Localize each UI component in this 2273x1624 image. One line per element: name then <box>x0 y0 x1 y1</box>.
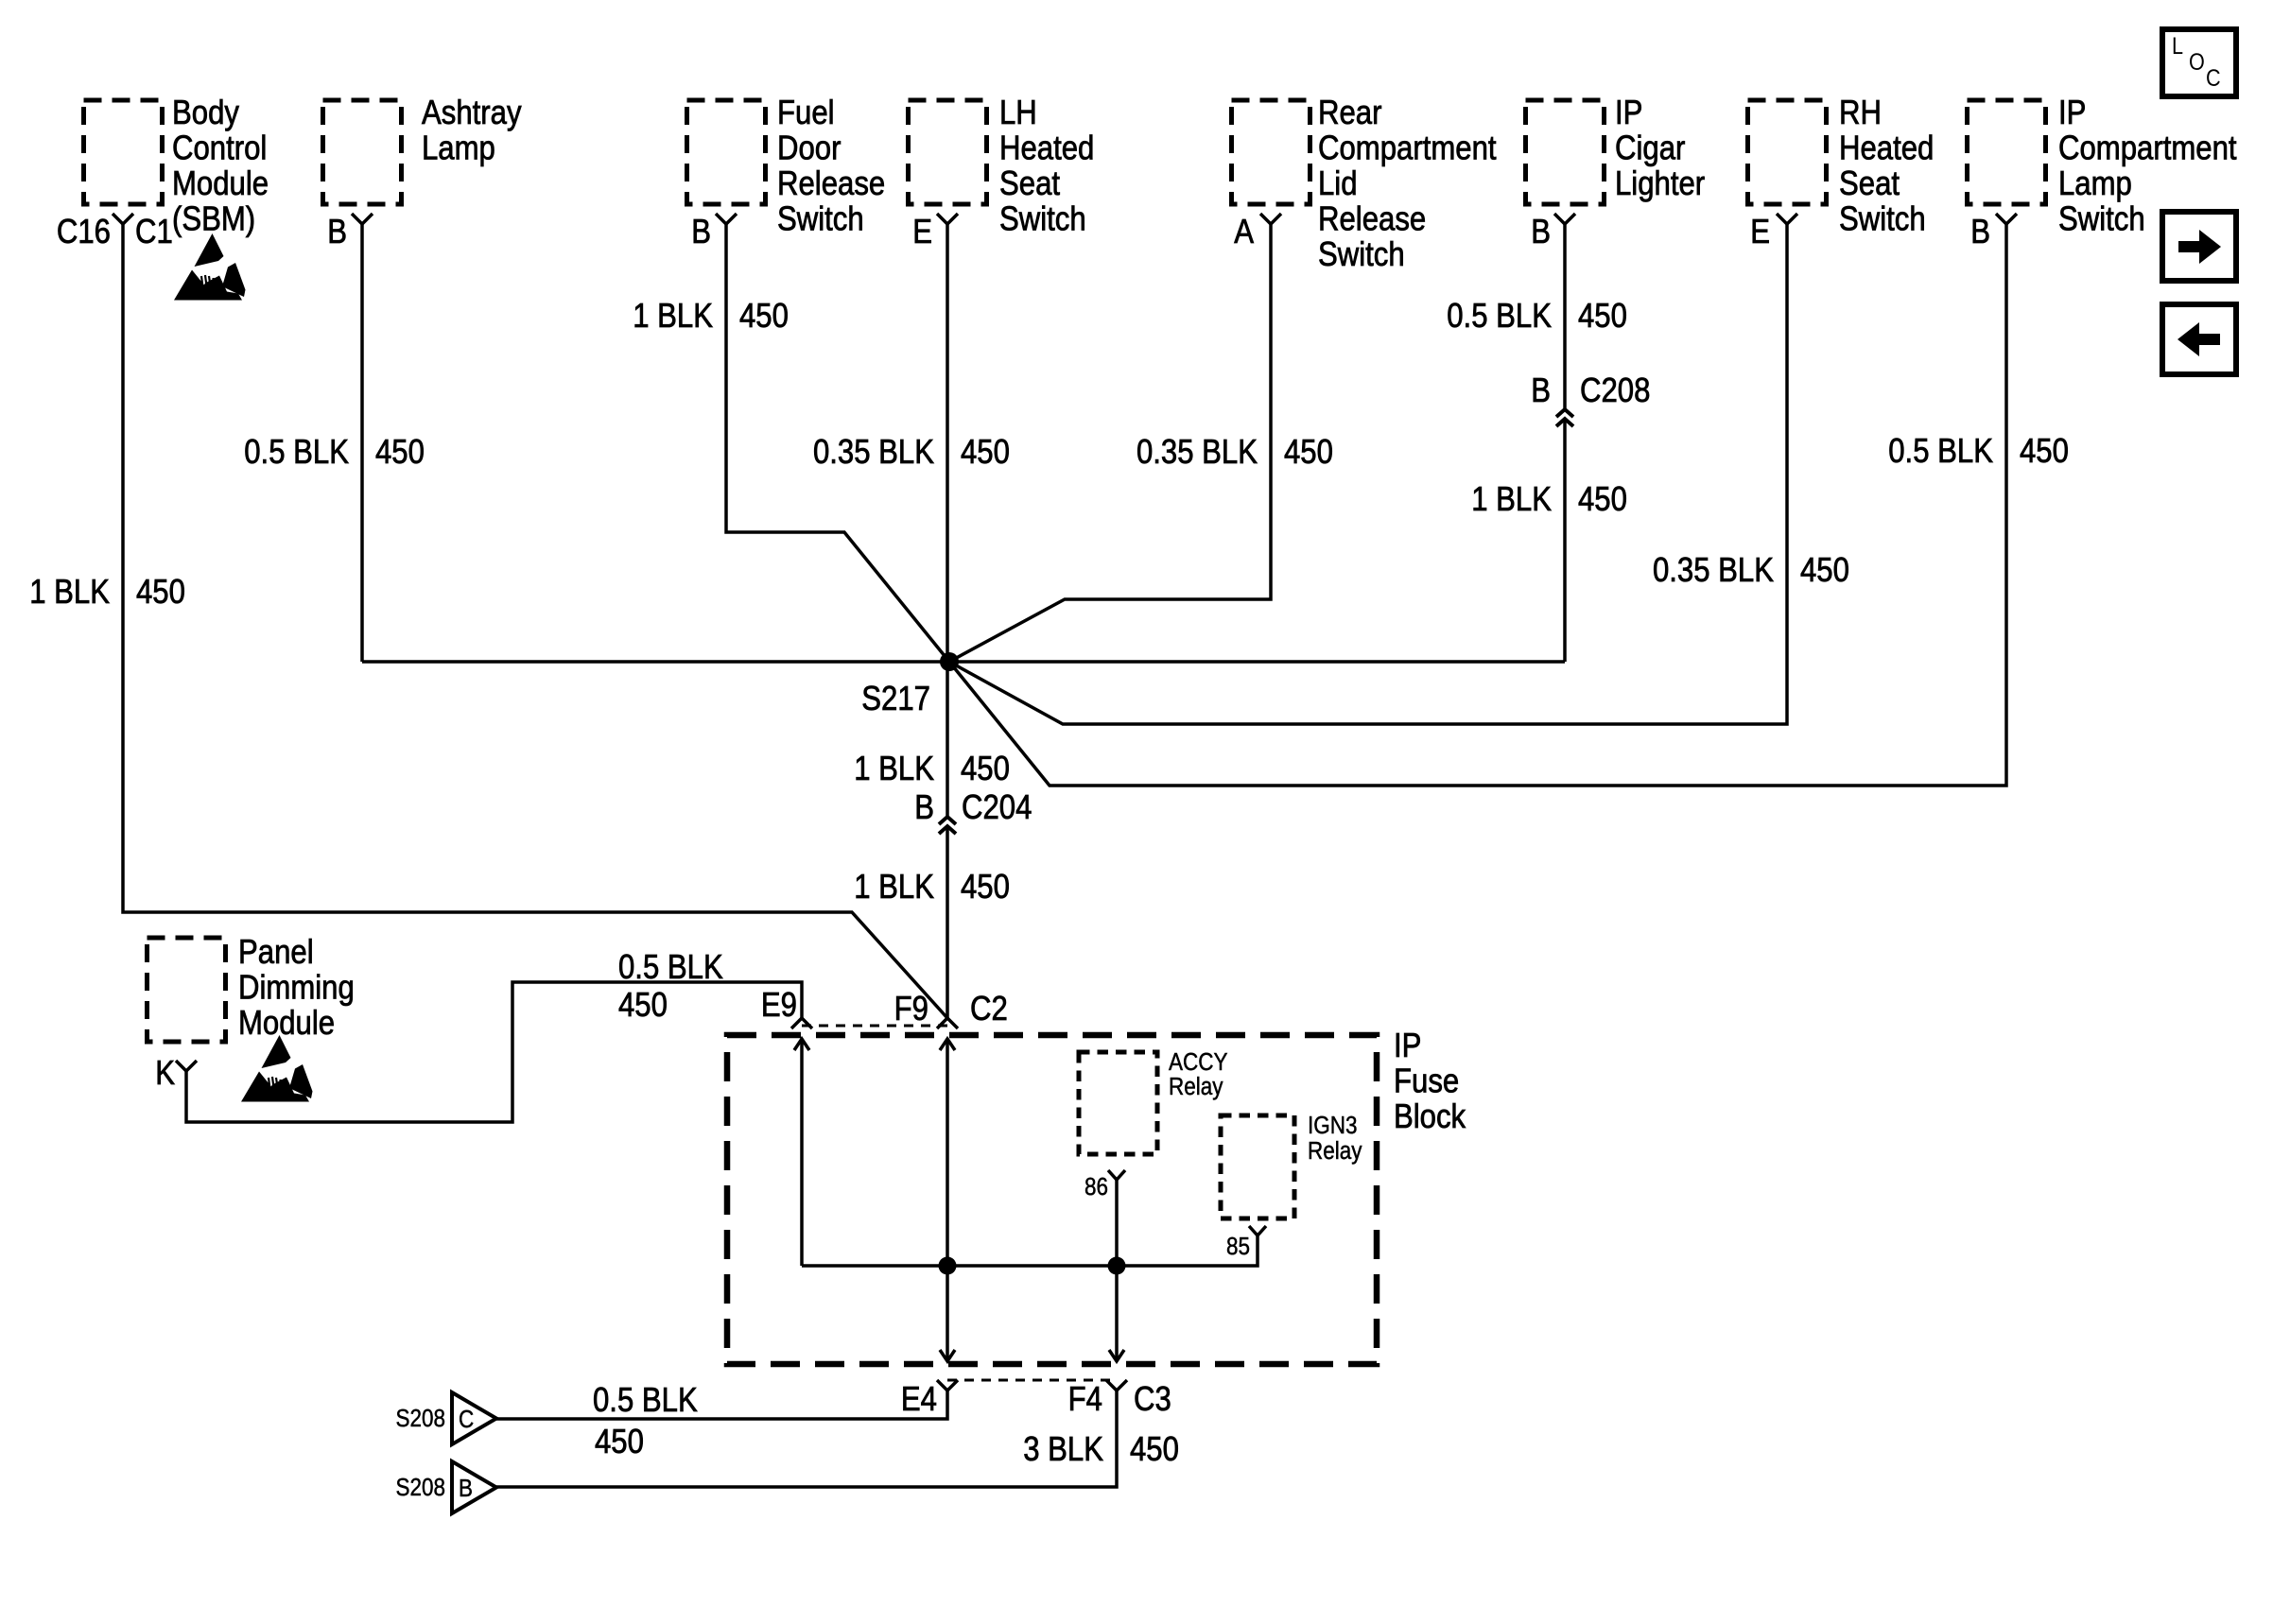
wire Fuel Door Release Switch to S217 <box>726 224 949 662</box>
svg-text:Module: Module <box>238 1005 335 1043</box>
svg-text:Switch: Switch <box>999 200 1086 238</box>
connector E9 fork at fuse block <box>761 987 812 1028</box>
svg-text:Module: Module <box>172 165 269 203</box>
svg-text:1 BLK: 1 BLK <box>854 869 934 907</box>
svg-text:B: B <box>914 789 934 827</box>
wire RH Heated Seat Switch to S217 <box>949 224 1787 724</box>
wire internal ground bus of fuse block <box>802 1235 1258 1266</box>
legend right-arrow box <box>2162 212 2236 281</box>
wire Ashtray Lamp to S217 horizontal <box>360 224 364 662</box>
pin K Panel Dimming Module <box>155 1055 197 1093</box>
svg-text:E4: E4 <box>901 1381 937 1419</box>
inline connector C204 pin B <box>914 789 1032 834</box>
value label 3 BLK 450 (S208 B wire) <box>1023 1431 1179 1469</box>
value label 1 BLK 450 (above C2) <box>854 869 1010 907</box>
svg-text:450: 450 <box>739 298 789 336</box>
pin 85 IGN3 Relay <box>1226 1226 1266 1260</box>
wire C2 entry through fuse block to E4 (up arrow, down arrow) <box>940 1039 955 1361</box>
pin B Fuel Door Release Switch <box>691 214 737 251</box>
pin B Ashtray Lamp <box>327 214 373 251</box>
wire IP Cigar Lighter lower segment C208 to S217 bus <box>1563 420 1567 662</box>
legend LOC box <box>2162 29 2236 96</box>
svg-text:IGN3: IGN3 <box>1308 1113 1357 1140</box>
component Panel Dimming Module <box>147 934 355 1043</box>
connector F4/C3 fork below fuse block <box>1068 1380 1171 1419</box>
svg-text:Cigar: Cigar <box>1615 130 1685 167</box>
svg-text:0.5 BLK: 0.5 BLK <box>618 949 723 987</box>
svg-text:0.5 BLK: 0.5 BLK <box>244 434 349 472</box>
legend left-arrow box <box>2162 304 2236 374</box>
pin B IP Compartment Lamp Switch <box>1970 214 2017 251</box>
value label 0.5 BLK 450 (panel dimming wire) <box>618 949 723 1025</box>
component S6 IP Compartment Lamp Switch <box>1968 95 2238 238</box>
svg-text:450: 450 <box>2020 433 2069 471</box>
value label 0.35 BLK 450 (RH heated seat wire) <box>1653 552 1849 590</box>
svg-text:RH: RH <box>1839 95 1882 132</box>
svg-text:(SBM): (SBM) <box>172 200 255 238</box>
svg-text:1 BLK: 1 BLK <box>1471 481 1552 519</box>
pin B IP Cigar Lighter <box>1531 214 1575 251</box>
wire Rear Compartment Lid Release Switch to S217 <box>949 224 1271 662</box>
svg-text:E: E <box>1750 214 1770 251</box>
svg-text:L: L <box>2172 33 2183 60</box>
wire IP Cigar Lighter upper segment to C208 <box>1563 224 1567 408</box>
splice S208 pin C symbol <box>395 1392 496 1444</box>
svg-text:F4: F4 <box>1068 1381 1102 1419</box>
wire IP Compartment Lamp Switch to S217 <box>949 224 2006 786</box>
junction dot at C2 wire and bus <box>939 1257 957 1275</box>
component ACCY Relay <box>1079 1049 1227 1154</box>
ESD sensitive symbol for Body Control Module <box>174 233 246 301</box>
svg-text:F9: F9 <box>894 991 928 1028</box>
svg-text:0.5 BLK: 0.5 BLK <box>593 1382 698 1420</box>
svg-text:Switch: Switch <box>2058 200 2145 238</box>
svg-text:C208: C208 <box>1580 372 1650 410</box>
value label 0.5 BLK 450 (S208 C wire) <box>593 1382 698 1461</box>
ESD sensitive symbol for Panel Dimming Module <box>241 1035 313 1102</box>
svg-text:Block: Block <box>1394 1098 1466 1136</box>
wire S208 B to F4/C3 3 BLK 450 <box>496 1391 1117 1487</box>
svg-text:E9: E9 <box>761 987 797 1025</box>
svg-text:Fuse: Fuse <box>1394 1063 1459 1100</box>
svg-text:A: A <box>1234 214 1254 251</box>
value label 0.35 BLK 450 (rear compartment wire) <box>1136 434 1333 472</box>
svg-text:450: 450 <box>1578 298 1627 336</box>
wire S208 C to E4 0.5 BLK 450 <box>496 1391 947 1419</box>
svg-text:1 BLK: 1 BLK <box>29 574 110 612</box>
svg-text:Control: Control <box>172 130 267 167</box>
svg-text:B: B <box>327 214 347 251</box>
pin A Rear Compartment Lid Release Switch <box>1234 214 1281 251</box>
svg-text:O: O <box>2189 49 2205 76</box>
svg-text:450: 450 <box>1578 481 1627 519</box>
junction dot at 86 wire and bus <box>1108 1257 1126 1275</box>
svg-text:C204: C204 <box>962 789 1032 827</box>
svg-text:C3: C3 <box>1134 1381 1171 1419</box>
value label 1 BLK 450 (fuel door wire) <box>633 298 789 336</box>
svg-text:IP: IP <box>2058 95 2086 132</box>
svg-text:450: 450 <box>595 1424 644 1461</box>
svg-text:0.5 BLK: 0.5 BLK <box>1447 298 1552 336</box>
svg-text:Relay: Relay <box>1169 1074 1223 1101</box>
pin 86 ACCY Relay <box>1084 1170 1125 1201</box>
component E1 Ashtray Lamp <box>323 95 522 204</box>
connector C2 fork at fuse block <box>894 991 1008 1028</box>
svg-text:Compartment: Compartment <box>1318 130 1497 167</box>
svg-text:Dimming: Dimming <box>238 969 355 1007</box>
wire LH Heated Seat Switch to S217 vertical <box>946 224 949 662</box>
component U1 Body Control Module (SBM) <box>84 95 269 238</box>
svg-text:C16: C16 <box>57 214 111 251</box>
svg-text:B: B <box>459 1476 473 1503</box>
svg-text:Seat: Seat <box>1839 165 1900 203</box>
svg-text:Heated: Heated <box>999 130 1094 167</box>
pin E LH Heated Seat Switch <box>912 214 958 251</box>
svg-text:450: 450 <box>136 574 185 612</box>
svg-text:Rear: Rear <box>1318 95 1381 132</box>
svg-text:Fuel: Fuel <box>777 95 835 132</box>
svg-text:0.5 BLK: 0.5 BLK <box>1888 433 1993 471</box>
svg-text:Heated: Heated <box>1839 130 1934 167</box>
wire S217 down to C204 <box>946 662 949 816</box>
component E2 IP Cigar Lighter <box>1526 95 1706 204</box>
wire C16 BCM ground 1 BLK 450 (down, across, diagonal to C2) <box>123 224 947 1018</box>
component S5 RH Heated Seat Switch <box>1748 95 1935 238</box>
connector pin C16 (BCM) <box>57 214 173 251</box>
svg-text:1 BLK: 1 BLK <box>633 298 713 336</box>
svg-text:Lid: Lid <box>1318 165 1358 203</box>
svg-text:Release: Release <box>1318 200 1426 238</box>
svg-text:Ashtray: Ashtray <box>422 95 522 132</box>
svg-text:Release: Release <box>777 165 885 203</box>
wire S217 horizontal bus <box>362 660 1565 664</box>
svg-text:B: B <box>1970 214 1990 251</box>
svg-text:B: B <box>1531 372 1551 410</box>
svg-text:S217: S217 <box>861 681 930 718</box>
svg-text:0.35 BLK: 0.35 BLK <box>1653 552 1775 590</box>
svg-text:0.35 BLK: 0.35 BLK <box>1136 434 1258 472</box>
value label 0.5 BLK 450 (cigar lighter wire) <box>1447 298 1627 336</box>
svg-text:LH: LH <box>999 95 1037 132</box>
inline connector C208 pin B <box>1531 372 1650 426</box>
value label 1 BLK 450 (BCM wire) <box>29 574 185 612</box>
wire 86 ACCY Relay down to bus and out to F4 <box>1115 1180 1119 1361</box>
wire E9 entry into fuse block (up arrow) <box>794 1039 809 1266</box>
svg-text:Door: Door <box>777 130 841 167</box>
svg-text:K: K <box>155 1055 175 1093</box>
svg-text:Switch: Switch <box>1839 200 1926 238</box>
svg-text:450: 450 <box>961 751 1010 788</box>
svg-text:C1: C1 <box>135 214 173 251</box>
svg-text:B: B <box>691 214 711 251</box>
svg-text:450: 450 <box>618 987 668 1025</box>
svg-text:85: 85 <box>1226 1234 1250 1261</box>
svg-text:S208: S208 <box>395 1475 445 1502</box>
value label 0.35 BLK 450 (LH heated seat wire) <box>813 434 1010 472</box>
svg-text:Body: Body <box>172 95 239 132</box>
svg-text:450: 450 <box>961 869 1010 907</box>
value label 1 BLK 450 (below C208) <box>1471 481 1627 519</box>
svg-text:Lighter: Lighter <box>1615 165 1705 203</box>
svg-text:1 BLK: 1 BLK <box>854 751 934 788</box>
svg-text:450: 450 <box>1130 1431 1179 1469</box>
svg-text:Seat: Seat <box>999 165 1061 203</box>
svg-text:0.35 BLK: 0.35 BLK <box>813 434 935 472</box>
svg-text:Lamp: Lamp <box>422 130 495 167</box>
svg-text:C: C <box>459 1407 474 1434</box>
component S3 LH Heated Seat Switch <box>909 95 1095 238</box>
svg-text:IP: IP <box>1394 1028 1421 1065</box>
svg-text:C: C <box>2206 65 2221 92</box>
svg-text:ACCY: ACCY <box>1169 1049 1227 1077</box>
svg-text:450: 450 <box>1800 552 1849 590</box>
wire K Panel Dimming Module to E9 0.5 BLK 450 <box>186 982 802 1122</box>
splice S208 pin B symbol <box>395 1461 496 1513</box>
svg-text:Lamp: Lamp <box>2058 165 2132 203</box>
svg-text:Relay: Relay <box>1308 1138 1362 1166</box>
svg-text:3 BLK: 3 BLK <box>1023 1431 1103 1469</box>
component S2 Fuel Door Release Switch <box>687 95 886 238</box>
svg-text:450: 450 <box>375 434 425 472</box>
component S4 Rear Compartment Lid Release Switch <box>1232 95 1498 274</box>
svg-text:IP: IP <box>1615 95 1642 132</box>
component IP Fuse Block (dashed boundary) <box>727 1028 1466 1364</box>
connector face dashed line E4-F4 <box>947 1379 1117 1382</box>
svg-text:86: 86 <box>1084 1174 1108 1201</box>
splice S217 junction dot <box>861 652 959 718</box>
connector face dashed line E9-C2 <box>802 1025 947 1028</box>
svg-text:S208: S208 <box>395 1406 445 1433</box>
value label 1 BLK 450 (above C204) <box>854 751 1010 788</box>
svg-text:Panel: Panel <box>238 934 314 972</box>
value label 0.5 BLK 450 (IP compartment lamp wire) <box>1888 433 2069 471</box>
svg-text:E: E <box>912 214 932 251</box>
svg-text:450: 450 <box>961 434 1010 472</box>
svg-text:B: B <box>1531 214 1551 251</box>
svg-text:Switch: Switch <box>777 200 864 238</box>
svg-text:450: 450 <box>1284 434 1333 472</box>
value label 0.5 BLK 450 (ashtray wire) <box>244 434 425 472</box>
pin E RH Heated Seat Switch <box>1750 214 1797 251</box>
svg-text:C2: C2 <box>970 991 1008 1028</box>
svg-text:Switch: Switch <box>1318 236 1405 274</box>
svg-text:Compartment: Compartment <box>2058 130 2237 167</box>
wire C204 down to IP fuse block C2 <box>946 826 949 1018</box>
component IGN3 Relay <box>1221 1113 1362 1218</box>
connector E4 fork below fuse block <box>901 1380 958 1419</box>
